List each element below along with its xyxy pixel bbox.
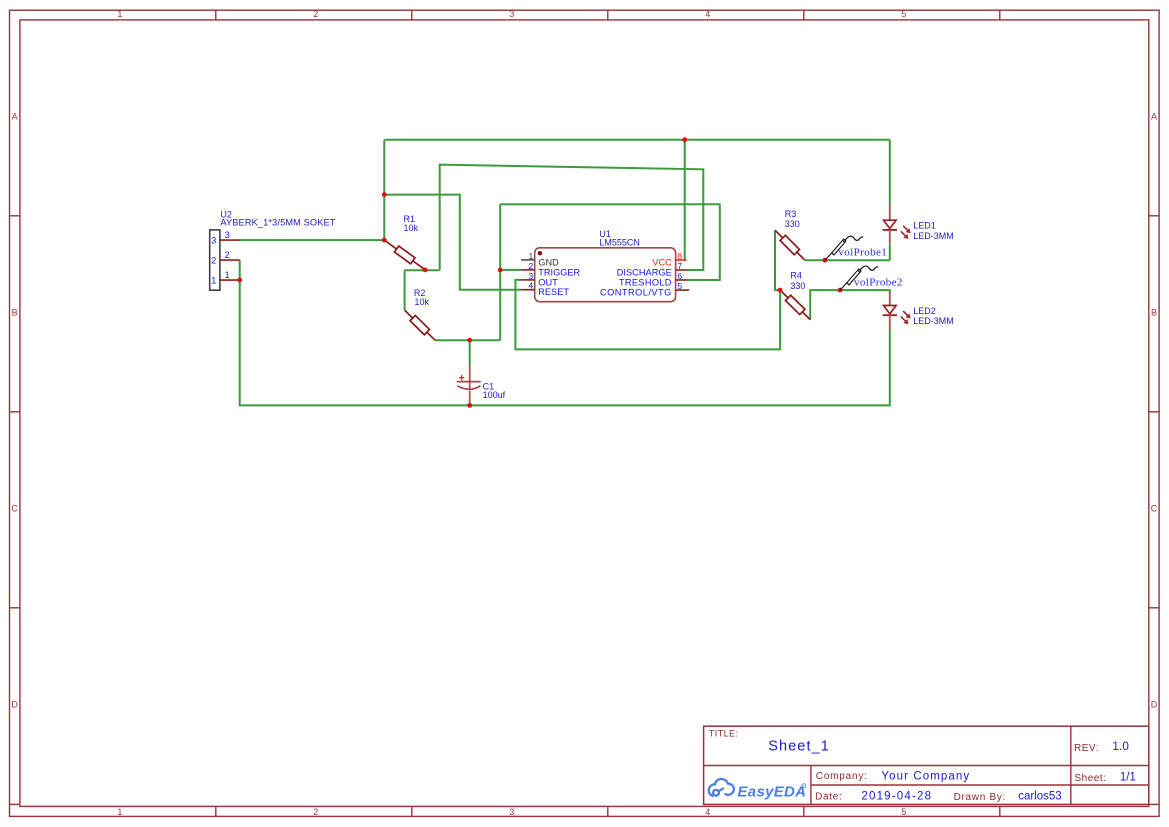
svg-text:A: A bbox=[1151, 112, 1157, 122]
svg-text:1: 1 bbox=[211, 275, 216, 285]
svg-text:8: 8 bbox=[677, 251, 682, 261]
svg-text:4: 4 bbox=[528, 281, 533, 291]
svg-text:carlos53: carlos53 bbox=[1018, 791, 1061, 803]
svg-text:C: C bbox=[11, 504, 18, 514]
svg-text:volProbe2: volProbe2 bbox=[854, 277, 903, 289]
svg-text:B: B bbox=[1151, 308, 1157, 318]
svg-text:R3: R3 bbox=[785, 209, 797, 219]
svg-text:3: 3 bbox=[509, 807, 514, 817]
svg-text:10k: 10k bbox=[415, 297, 430, 307]
svg-text:Company:: Company: bbox=[816, 771, 868, 782]
svg-text:TRESHOLD: TRESHOLD bbox=[619, 277, 672, 287]
svg-text:4: 4 bbox=[705, 9, 710, 19]
svg-text:330: 330 bbox=[785, 219, 800, 229]
svg-text:A: A bbox=[12, 112, 18, 122]
svg-text:1: 1 bbox=[117, 807, 122, 817]
svg-text:10k: 10k bbox=[404, 223, 419, 233]
svg-text:2: 2 bbox=[211, 255, 216, 265]
svg-text:Sheet:: Sheet: bbox=[1075, 773, 1107, 784]
svg-text:5: 5 bbox=[677, 281, 682, 291]
svg-text:2: 2 bbox=[528, 261, 533, 271]
svg-text:1.0: 1.0 bbox=[1112, 739, 1129, 753]
svg-text:2: 2 bbox=[313, 807, 318, 817]
svg-text:2019-04-28: 2019-04-28 bbox=[861, 790, 932, 802]
svg-text:AYBERK_1*3/5MM SOKET: AYBERK_1*3/5MM SOKET bbox=[220, 218, 335, 228]
svg-text:6: 6 bbox=[677, 271, 682, 281]
svg-text:3: 3 bbox=[509, 9, 514, 19]
svg-text:DISCHARGE: DISCHARGE bbox=[617, 267, 672, 277]
svg-text:330: 330 bbox=[790, 281, 805, 291]
svg-text:LED1: LED1 bbox=[913, 221, 936, 231]
svg-text:LED-3MM: LED-3MM bbox=[913, 231, 954, 241]
svg-text:TRIGGER: TRIGGER bbox=[538, 267, 580, 277]
svg-text:D: D bbox=[1151, 700, 1158, 710]
svg-text:3: 3 bbox=[528, 271, 533, 281]
svg-text:1: 1 bbox=[528, 251, 533, 261]
svg-text:GND: GND bbox=[538, 257, 559, 267]
svg-text:5: 5 bbox=[901, 807, 906, 817]
svg-text:LM555CN: LM555CN bbox=[599, 237, 640, 247]
svg-text:2: 2 bbox=[313, 9, 318, 19]
svg-text:OUT: OUT bbox=[538, 277, 558, 287]
svg-text:Sheet_1: Sheet_1 bbox=[768, 739, 830, 755]
svg-text:Drawn By:: Drawn By: bbox=[954, 792, 1006, 803]
svg-text:VCC: VCC bbox=[652, 257, 672, 267]
svg-text:3: 3 bbox=[211, 235, 216, 245]
svg-text:D: D bbox=[11, 700, 18, 710]
svg-text:volProbe1: volProbe1 bbox=[838, 247, 887, 259]
svg-text:2: 2 bbox=[225, 250, 230, 260]
svg-text:1: 1 bbox=[225, 270, 230, 280]
svg-text:100uf: 100uf bbox=[483, 390, 506, 400]
svg-text:3: 3 bbox=[225, 230, 230, 240]
svg-text:B: B bbox=[12, 308, 18, 318]
svg-text:RESET: RESET bbox=[538, 287, 569, 297]
svg-text:R4: R4 bbox=[790, 271, 802, 281]
svg-text:Your Company: Your Company bbox=[881, 771, 970, 783]
svg-text:4: 4 bbox=[705, 807, 710, 817]
svg-text:7: 7 bbox=[677, 261, 682, 271]
svg-text:C: C bbox=[1151, 504, 1158, 514]
svg-text:TITLE:: TITLE: bbox=[709, 729, 738, 739]
svg-text:LED-3MM: LED-3MM bbox=[913, 316, 954, 326]
svg-text:LED2: LED2 bbox=[913, 306, 936, 316]
svg-text:CONTROL/VTG: CONTROL/VTG bbox=[600, 288, 672, 298]
svg-text:Date:: Date: bbox=[815, 792, 842, 803]
svg-text:1/1: 1/1 bbox=[1120, 772, 1136, 784]
svg-text:EasyEDA: EasyEDA bbox=[738, 784, 807, 801]
svg-text:1: 1 bbox=[117, 9, 122, 19]
svg-text:5: 5 bbox=[901, 9, 906, 19]
svg-text:REV:: REV: bbox=[1074, 743, 1099, 754]
